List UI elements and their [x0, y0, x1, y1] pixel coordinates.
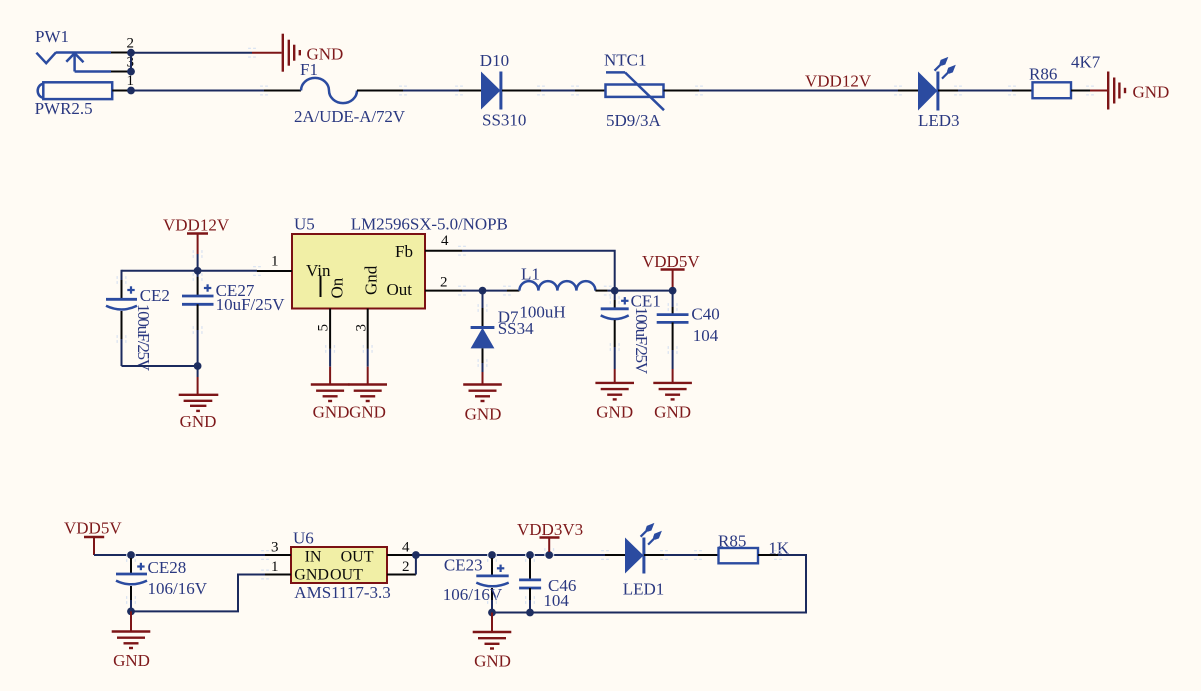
capacitor CE23 — [443, 556, 509, 613]
svg-text:VDD5V: VDD5V — [642, 252, 700, 271]
svg-text:PWR2.5: PWR2.5 — [35, 99, 93, 118]
svg-text:1: 1 — [127, 73, 135, 89]
pin 1 U6 — [265, 574, 291, 576]
capacitor CE1 — [601, 291, 661, 375]
ground GND pin3 — [348, 385, 387, 422]
wire — [541, 90, 575, 92]
svg-text:C40: C40 — [691, 305, 719, 324]
wire — [403, 90, 459, 92]
svg-text:Gnd: Gnd — [362, 265, 381, 295]
LED LED1 — [605, 523, 664, 599]
IC U6 — [291, 529, 391, 602]
ground GND C40 — [653, 369, 692, 422]
svg-text:1: 1 — [271, 254, 279, 270]
power VDD5V bottom — [64, 519, 122, 556]
wire — [131, 90, 264, 92]
svg-text:100uF/25V: 100uF/25V — [632, 307, 651, 375]
svg-text:D10: D10 — [480, 51, 509, 70]
pin 4 U6 — [387, 554, 416, 556]
svg-text:GND: GND — [1133, 83, 1170, 102]
power VDD12V — [163, 216, 230, 271]
svg-text:LED1: LED1 — [623, 580, 665, 599]
ground GND CE1 — [595, 369, 634, 422]
resistor R86 — [1012, 52, 1101, 98]
node C46 bottom — [526, 609, 534, 617]
svg-text:104: 104 — [543, 591, 569, 610]
node L1 out — [611, 287, 619, 295]
svg-text:OUT: OUT — [341, 549, 374, 566]
node CE28 top — [127, 551, 135, 559]
svg-text:GND: GND — [654, 403, 691, 422]
svg-text:4: 4 — [441, 233, 449, 249]
pin 3 U5 — [367, 309, 369, 349]
svg-text:GND: GND — [294, 566, 329, 583]
wire bottom rail — [122, 365, 198, 367]
svg-text:106/16V: 106/16V — [148, 579, 208, 598]
svg-text:Out: Out — [387, 280, 413, 299]
svg-text:106/16V: 106/16V — [443, 585, 503, 604]
power ground GND top — [283, 34, 344, 72]
power ground GND right — [1090, 72, 1169, 110]
svg-text:U5: U5 — [294, 215, 315, 234]
svg-text:SS34: SS34 — [498, 319, 534, 338]
svg-text:Vin: Vin — [306, 261, 331, 280]
connector PW1 — [35, 27, 134, 118]
ground GND pin5 — [311, 385, 350, 422]
svg-text:OUT: OUT — [330, 566, 363, 583]
svg-text:5D9/3A: 5D9/3A — [606, 111, 662, 130]
wire pin4 feedback net — [462, 251, 615, 291]
resistor R85 — [698, 531, 790, 563]
pin 3 U6 — [265, 554, 291, 556]
wire return loop — [492, 555, 806, 613]
node CE23 bottom — [488, 609, 496, 617]
thermistor NTC1 — [575, 50, 699, 130]
svg-text:10uF/25V: 10uF/25V — [216, 295, 286, 314]
pin 5 U5 — [329, 309, 331, 349]
svg-text:On: On — [328, 277, 347, 298]
svg-text:GND: GND — [349, 403, 386, 422]
wire pin2-pin3 — [130, 53, 132, 72]
svg-text:LM2596SX-5.0/NOPB: LM2596SX-5.0/NOPB — [351, 215, 508, 234]
svg-text:GND: GND — [180, 412, 217, 431]
svg-text:CE23: CE23 — [444, 556, 483, 575]
svg-text:VDD3V3: VDD3V3 — [517, 520, 583, 539]
svg-text:GND: GND — [474, 652, 511, 671]
node CE27 bottom — [194, 362, 202, 370]
svg-text:AMS1117-3.3: AMS1117-3.3 — [294, 583, 391, 602]
wire — [94, 554, 265, 556]
node CE23 top — [488, 551, 496, 559]
capacitor C46 — [519, 558, 576, 613]
wire net VDD12V — [699, 90, 898, 92]
svg-text:1: 1 — [271, 559, 279, 575]
capacitor C40 — [657, 291, 720, 369]
inductor L1 — [507, 265, 608, 322]
wire pin2 out net — [462, 290, 483, 292]
wire — [608, 290, 673, 292]
svg-text:4: 4 — [402, 540, 410, 556]
pin 4 U5 — [425, 250, 462, 252]
wire — [958, 90, 1012, 92]
svg-text:2: 2 — [402, 559, 410, 575]
svg-text:GND: GND — [113, 651, 150, 670]
svg-text:PW1: PW1 — [35, 27, 69, 46]
power VDD3V3 — [517, 520, 583, 555]
pin 2 U5 — [425, 290, 462, 292]
svg-text:VDD12V: VDD12V — [805, 72, 872, 91]
svg-text:VDD12V: VDD12V — [163, 216, 230, 235]
node C46 top — [526, 551, 534, 559]
wire pin2 to GND — [131, 52, 252, 54]
diode D10 — [459, 51, 541, 130]
wire VDD3V3 net — [416, 554, 605, 556]
capacitor CE2 — [106, 270, 170, 372]
svg-text:100uF/25V: 100uF/25V — [134, 304, 153, 372]
svg-text:L1: L1 — [521, 265, 540, 284]
node U6 out — [412, 551, 420, 559]
node VDD12V junction — [194, 267, 202, 275]
svg-text:GND: GND — [465, 405, 502, 424]
svg-text:104: 104 — [693, 326, 719, 345]
wire pin5 to gnd — [329, 349, 331, 367]
pin 1 U5 — [257, 270, 292, 272]
node VDD3V3 stem — [545, 551, 553, 559]
svg-text:2A/UDE-A/72V: 2A/UDE-A/72V — [294, 107, 406, 126]
node pin3 — [127, 68, 135, 76]
svg-text:GND: GND — [313, 403, 350, 422]
svg-text:R86: R86 — [1029, 64, 1057, 83]
node VDD5V mid — [669, 287, 677, 295]
svg-text:Fb: Fb — [395, 242, 413, 261]
wire gnd return to pin1 — [131, 575, 265, 612]
svg-text:3: 3 — [354, 324, 370, 332]
svg-text:LED3: LED3 — [918, 111, 960, 130]
svg-text:NTC1: NTC1 — [604, 50, 647, 69]
svg-text:5: 5 — [316, 324, 332, 332]
capacitor CE28 — [116, 558, 208, 611]
svg-text:VDD5V: VDD5V — [64, 519, 122, 538]
IC U5 — [292, 215, 508, 309]
pin 2 U6 — [387, 574, 416, 576]
svg-text:4K7: 4K7 — [1071, 52, 1101, 71]
svg-text:GND: GND — [596, 403, 633, 422]
fuse F1 — [264, 60, 406, 126]
svg-text:3: 3 — [271, 540, 279, 556]
node pin1 — [127, 87, 135, 95]
svg-text:2: 2 — [440, 275, 448, 291]
LED LED3 — [898, 57, 960, 130]
svg-text:SS310: SS310 — [482, 111, 526, 130]
wire pin2 to pin4 — [415, 555, 417, 575]
wire pin3 to gnd — [367, 349, 369, 367]
ground GND CE23 — [473, 613, 512, 671]
diode D7 — [471, 291, 535, 363]
node D7 — [479, 287, 487, 295]
ground GND D7 — [463, 363, 502, 424]
capacitor CE27 — [182, 271, 285, 366]
svg-text:U6: U6 — [293, 529, 314, 548]
svg-text:IN: IN — [305, 549, 322, 566]
svg-text:F1: F1 — [300, 60, 318, 79]
power VDD5V mid — [642, 252, 700, 291]
ground GND CE28 — [112, 611, 151, 670]
svg-text:CE2: CE2 — [140, 286, 170, 305]
ground GND under CE27 — [179, 366, 219, 431]
wire — [664, 554, 698, 556]
node CE28 bottom — [127, 608, 135, 616]
node pin2 — [127, 49, 135, 57]
svg-text:R85: R85 — [718, 531, 746, 550]
svg-text:CE28: CE28 — [148, 558, 187, 577]
wire top rail — [122, 270, 258, 272]
